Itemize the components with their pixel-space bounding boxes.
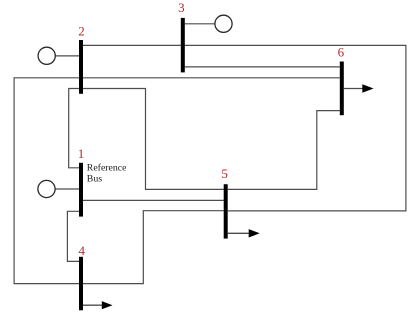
wire line 3-6 — [185, 66, 340, 68]
generator G1 circle — [38, 180, 55, 197]
generator G1 lead wire — [55, 188, 79, 190]
wire line 1-4 (bus1 left, down at x67.4, into bus4) — [67, 211, 79, 261]
svg-text:3: 3 — [178, 0, 185, 15]
wire line 2-6 — [83, 77, 340, 79]
wire line 1-2 (bus2 left at y88.5, down, into bus1) — [69, 89, 79, 168]
generator G2 lead wire — [55, 55, 79, 57]
bus 2 bar — [79, 40, 83, 94]
wire line 2-5 (bus2 right at y88.5, down at x145.5, into bus5 left) — [83, 89, 224, 190]
wire line 5-6 (bus6 bottom left, down at x316.8, into bus5 right) — [228, 111, 340, 190]
wire line 2-3 and line 3-5 (bus2 right, across bus3, right edge down into bus5) — [83, 45, 406, 211]
generator G3 circle — [215, 15, 232, 32]
svg-text:Bus: Bus — [87, 173, 102, 184]
generator G2 circle — [38, 47, 55, 64]
bus 3 bar — [181, 18, 185, 73]
generator G3 lead wire — [185, 23, 215, 25]
load arrow at bus 6 — [344, 88, 363, 90]
load arrow at bus 5 — [228, 232, 250, 234]
wire line 1-5 — [83, 199, 224, 201]
bus 4 bar — [79, 257, 83, 311]
svg-text:Reference: Reference — [87, 162, 127, 173]
svg-text:5: 5 — [221, 166, 228, 181]
svg-text:6: 6 — [338, 45, 345, 60]
bus 1 bar (reference bus) — [79, 163, 83, 217]
svg-text:1: 1 — [78, 146, 85, 161]
wire line 4-5 (bus4 right, up at x143, into bus5 left) — [83, 211, 224, 284]
wire line 2-4 (bus2 left, outer left edge, down, into bus4) — [14, 78, 79, 284]
svg-text:4: 4 — [79, 243, 86, 258]
svg-text:2: 2 — [78, 24, 85, 39]
bus 5 bar — [224, 184, 228, 238]
load arrow at bus 4 — [83, 304, 103, 306]
bus 6 bar — [340, 62, 344, 116]
